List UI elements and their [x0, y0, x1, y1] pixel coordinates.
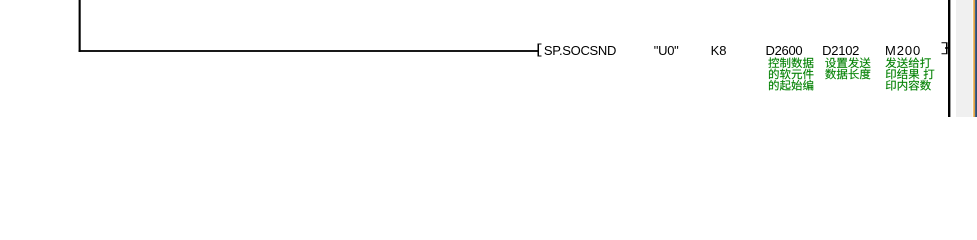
- right window-edge gray strip: [956, 0, 972, 117]
- comment D2600 green text: [768, 57, 813, 90]
- right window-edge light sliver: [972, 0, 973, 117]
- comment D2102 green text: [825, 57, 870, 79]
- operand K8: [711, 44, 727, 57]
- operand D2102: [822, 44, 859, 57]
- wire vertical branch: [79, 0, 81, 52]
- right window-edge blue border: [975, 0, 976, 117]
- instruction right bracket: [942, 42, 948, 54]
- comment M200 green text: [886, 57, 935, 90]
- operand M200: [885, 44, 921, 57]
- operand "U0": [654, 44, 679, 57]
- wire stub to right rail: [948, 47, 950, 49]
- wire horizontal rung: [79, 50, 538, 52]
- instruction left bracket: [538, 44, 542, 57]
- instruction name SP.SOCSND: [544, 44, 616, 57]
- right power rail: [948, 0, 950, 117]
- right window-edge amber border: [973, 0, 974, 117]
- operand D2600: [766, 44, 803, 57]
